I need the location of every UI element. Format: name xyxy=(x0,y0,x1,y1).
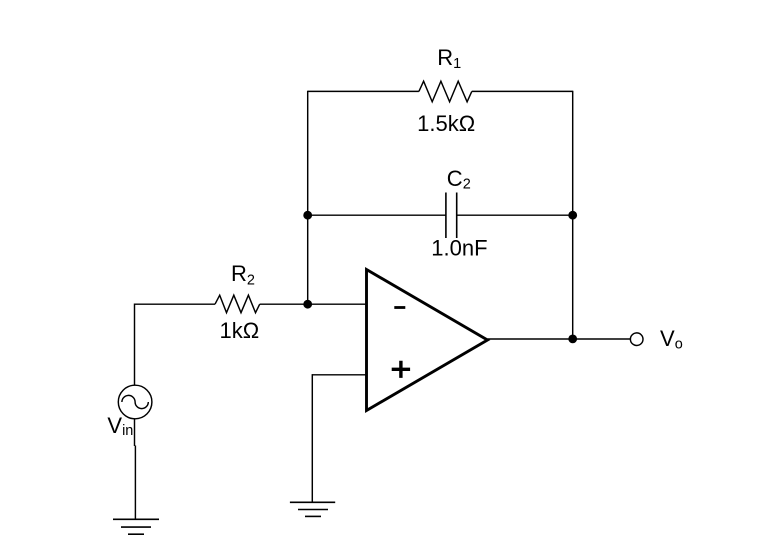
wire input right segment xyxy=(260,303,366,305)
junction dot output node xyxy=(568,335,577,344)
wire right feedback vertical xyxy=(572,91,574,339)
terminal Vo open circle xyxy=(630,333,643,346)
source Vin circle xyxy=(118,385,152,419)
wire top feedback right segment xyxy=(472,90,573,92)
wire top feedback left segment xyxy=(308,90,419,92)
junction dot feedback-left / C2 xyxy=(303,211,312,220)
svg-text:1.5kΩ: 1.5kΩ xyxy=(417,111,475,136)
wire left feedback vertical xyxy=(307,91,309,305)
junction dot inverting input node xyxy=(303,300,312,309)
svg-text:1.0nF: 1.0nF xyxy=(431,236,487,261)
wire output xyxy=(488,338,631,340)
wire input left segment xyxy=(135,303,216,305)
op-amp U1 triangle xyxy=(367,270,488,411)
source Vin sine xyxy=(122,395,148,408)
ground GND2 xyxy=(290,502,335,516)
svg-text:1kΩ: 1kΩ xyxy=(219,318,259,343)
wire noninverting vertical to ground xyxy=(311,374,313,502)
wire input vertical to source xyxy=(134,304,136,386)
capacitor C2 xyxy=(446,193,457,239)
wire C2 left segment xyxy=(308,214,446,216)
resistor R1 xyxy=(419,81,472,102)
wire source to ground upper xyxy=(134,419,136,446)
ground GND1 xyxy=(113,519,159,534)
wire C2 right segment xyxy=(457,214,573,216)
wire source to ground lower xyxy=(134,446,136,520)
op-amp minus sign xyxy=(394,306,405,309)
op-amp plus sign xyxy=(392,361,410,378)
resistor R2 xyxy=(215,295,260,313)
junction dot feedback-right / C2 xyxy=(568,211,577,220)
wire noninverting input xyxy=(312,374,366,376)
